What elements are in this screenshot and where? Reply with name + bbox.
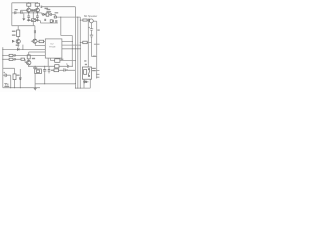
resistor R2: [35, 3, 39, 6]
wire pot row: [27, 20, 41, 22]
battery marks bottom left: [4, 84, 8, 86]
resistor R6 speaker series: [83, 19, 87, 21]
ground symbol mid rail: [34, 88, 37, 90]
wire T1 base lead: [21, 10, 27, 13]
wire left bottom y68.3: [3, 68, 15, 87]
resistor R7: [39, 40, 44, 43]
wire into box y17: [54, 14, 56, 16]
capacitor C4: [33, 9, 36, 12]
capacitor C9 on row1: [17, 48, 19, 51]
capacitor C16: [88, 19, 89, 22]
wire row2 y55.4: [3, 54, 46, 56]
wire tick joins right: [92, 44, 100, 56]
capacitor C2: [21, 11, 22, 14]
wire Q4 collector row y52: [29, 52, 46, 66]
wire speaker feed: [80, 19, 88, 21]
wire decoupling drops: [24, 13, 38, 20]
resistor R9: [9, 54, 13, 56]
wire left vertical: [11, 3, 13, 26]
wire IC bottom pin b and row y60.6: [51, 58, 76, 61]
IC left pin stubs: [44, 42, 47, 56]
crystal X1: [35, 69, 42, 74]
wire left rail: [2, 47, 4, 87]
wire bottom rail y83.5: [35, 83, 75, 85]
resistor R11: [21, 58, 25, 60]
capacitor C13: [48, 70, 51, 71]
wire battery column x92.3: [91, 23, 93, 57]
relay RL1: [82, 67, 91, 79]
capacitor C12: [43, 70, 46, 71]
wire row y26.1: [12, 25, 35, 27]
wire cross-coupling links: [31, 10, 36, 12]
capacitor C3: [31, 9, 34, 12]
ground symbol 2: [36, 20, 39, 22]
wire resistor row right y42.4: [80, 41, 91, 43]
wire T3 emitter to pin2: [35, 43, 45, 45]
resistor R3: [46, 13, 49, 16]
text labels: [49, 15, 97, 49]
wire bus vertical x80.3: [79, 17, 81, 88]
wire left bottom cap row: [3, 75, 11, 88]
resistor R15: [54, 69, 59, 72]
wire T3 base stub: [31, 40, 33, 42]
svg-text:HT12E: HT12E: [49, 47, 56, 49]
capacitor C11: [14, 58, 15, 60]
wire IC right pin wires: [62, 42, 80, 49]
wire ground rail y87.7: [3, 87, 91, 89]
resistor R1: [27, 3, 31, 6]
wire R1 to T1: [28, 6, 30, 8]
plus sign battery: [89, 27, 90, 28]
transistor T2: [35, 8, 39, 12]
wire row y70.3: [54, 69, 76, 71]
wire chain to diode: [42, 13, 56, 15]
wire supply tap x60.8: [61, 17, 73, 35]
resistor R4 small: [54, 16, 56, 18]
resistor R12 vertical: [27, 55, 30, 59]
small parts on y23 row: [50, 20, 52, 23]
wire top rail: [12, 2, 38, 4]
resistor R17 right column: [83, 41, 87, 44]
small label blobs: [4, 6, 99, 87]
zener D3: [19, 78, 21, 80]
transistor T1: [27, 8, 31, 12]
diode D1: [43, 13, 45, 15]
wire bus vertical x75.4: [74, 7, 76, 88]
wire x22.9 stub: [22, 45, 24, 50]
wire emitter rail with caps: [12, 12, 42, 14]
wire T1 emitter: [28, 11, 30, 14]
resistor R13: [55, 59, 60, 63]
capacitor C15 electrolytic: [66, 64, 68, 68]
wire pot chain vertical: [32, 12, 34, 26]
resistor R8 vertical: [17, 30, 20, 37]
wire row1 y49.4: [3, 48, 46, 50]
wire relay pins: [84, 79, 90, 88]
wire cap drops crystal: [45, 66, 49, 84]
resistor R16 vertical: [13, 74, 16, 80]
wire crystal drop: [34, 66, 36, 87]
wire pot to lower row: [40, 21, 57, 23]
wire row3 y59.3: [3, 59, 27, 62]
wire bus vertical x77.8: [77, 17, 79, 88]
capacitor C10: [14, 54, 15, 56]
speaker LS1: [89, 19, 93, 23]
capacitor C6 vertical: [36, 16, 39, 17]
wire right terminals: [96, 70, 99, 77]
resistor R14 in rail: [55, 65, 59, 68]
capacitor bottom left electrolytic: [4, 72, 7, 77]
wire T2 emitter: [36, 11, 38, 14]
wire mid rail y66.3: [29, 65, 73, 67]
svg-text:8Ω Speaker: 8Ω Speaker: [84, 15, 97, 18]
wire top right rail H2: [41, 6, 75, 8]
wire speaker to right rail: [93, 20, 97, 22]
ground symbol 3: [22, 19, 25, 21]
wire right vertical x96.7: [96, 21, 98, 78]
capacitor C5 vertical: [27, 16, 30, 17]
transistor T3: [33, 39, 37, 43]
pot VR1: [32, 19, 36, 22]
capacitor C7 electrolytic: [49, 12, 51, 17]
wire speaker return x88.3: [87, 22, 89, 67]
wire bus vertical x72.3: [71, 36, 73, 67]
wire R2 to T2: [36, 3, 38, 8]
capacitor C8: [34, 30, 35, 33]
junction dots: [2, 2, 81, 88]
wire supply line y17.1: [56, 16, 80, 18]
diode marks left of T5: [12, 40, 14, 42]
capacitor C14 electrolytic: [64, 68, 68, 71]
wire cap drop x34.9: [34, 26, 36, 39]
transistor T5: [16, 39, 20, 43]
diode D2: [83, 81, 88, 83]
transistor Q4: [27, 61, 31, 65]
wire T5 chain: [17, 26, 19, 48]
ground symbol 1: [27, 20, 30, 22]
IC U1: [45, 39, 62, 58]
battery cells right: [90, 29, 93, 37]
wire zener branch: [19, 69, 21, 88]
wire IC bottom pin a: [47, 58, 49, 66]
resistor R10: [9, 58, 13, 60]
wire T3 to R7 to IC: [37, 41, 45, 43]
capacitor C1: [15, 11, 16, 14]
